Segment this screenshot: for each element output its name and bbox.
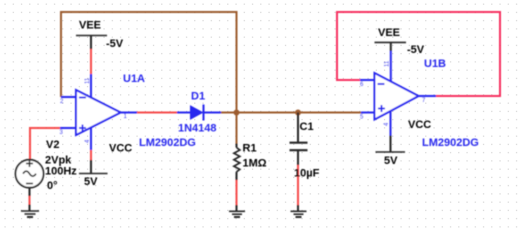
ground below V2: [21, 211, 39, 217]
svg-text:1N4148: 1N4148: [178, 123, 217, 135]
VEE power symbol U1A: [76, 20, 124, 75]
svg-text:U1A: U1A: [123, 73, 145, 85]
VEE power symbol U1B: [375, 27, 425, 56]
svg-text:LM2902DG: LM2902DG: [139, 137, 196, 149]
pin 4 stub (VCC): [90, 127, 92, 150]
pin 11 stub (VEE): [90, 74, 92, 98]
wire: red segment U1A output: [137, 112, 177, 114]
diode D1: [177, 91, 221, 135]
svg-text:5V: 5V: [84, 176, 98, 188]
svg-text:1MΩ: 1MΩ: [243, 158, 267, 170]
op-amp U1A: [60, 73, 196, 150]
source V2: [16, 139, 78, 211]
node junction at C1 top: [295, 110, 301, 116]
svg-text:C1: C1: [300, 121, 314, 133]
pin 3 stub (non-inverting input): [60, 127, 76, 129]
svg-text:VCC: VCC: [109, 143, 132, 155]
svg-text:100Hz: 100Hz: [45, 166, 77, 178]
VCC power symbol U1B: [376, 119, 432, 167]
pin 2 stub (inverting input): [61, 96, 76, 98]
pin 4 stub (VCC): [390, 111, 392, 136]
minus mark: [378, 83, 385, 85]
svg-text:D1: D1: [191, 91, 205, 103]
svg-text:5V: 5V: [384, 155, 398, 167]
wire: red net V2 to U1A plus input: [30, 128, 60, 160]
pin 6 stub (inverting input): [360, 79, 375, 81]
pin 11 stub (VEE): [390, 51, 392, 82]
wire below V2: [29, 188, 31, 196]
resistor R1: [234, 143, 267, 212]
ground below C1: [291, 211, 307, 217]
pin 1 stub (output): [121, 112, 138, 114]
svg-text:VCC: VCC: [408, 119, 431, 131]
svg-text:11: 11: [85, 77, 91, 84]
svg-text:VEE: VEE: [79, 20, 101, 32]
minus mark: [79, 97, 86, 99]
plus mark: [79, 127, 86, 129]
wire: red feedback net U1B (output right edge, top edge, down to minus): [337, 12, 500, 96]
svg-text:LM2902DG: LM2902DG: [422, 137, 479, 149]
svg-text:0°: 0°: [47, 180, 58, 192]
op-amp U1B: [360, 51, 479, 149]
svg-text:V2: V2: [46, 139, 59, 151]
svg-text:-5V: -5V: [106, 38, 124, 50]
pin 5 stub (non-inverting input): [361, 112, 375, 114]
svg-text:11: 11: [385, 60, 391, 67]
pin 7 stub (output): [419, 95, 437, 97]
svg-text:10µF: 10µF: [294, 168, 320, 180]
plus mark: [378, 108, 385, 110]
VCC power symbol U1A: [79, 143, 132, 189]
ground below R1: [229, 211, 245, 217]
svg-text:R1: R1: [243, 143, 257, 155]
node junction at R1 top: [234, 110, 240, 116]
capacitor C1: [290, 113, 320, 212]
wire: brown feedback net U1A (left edge, top edge, right edge down to R1): [61, 12, 237, 144]
svg-text:VEE: VEE: [378, 27, 400, 39]
svg-text:-5V: -5V: [407, 44, 425, 56]
svg-text:U1B: U1B: [424, 58, 446, 70]
wire: brown output net horizontal segment diode to U1B: [221, 112, 361, 114]
